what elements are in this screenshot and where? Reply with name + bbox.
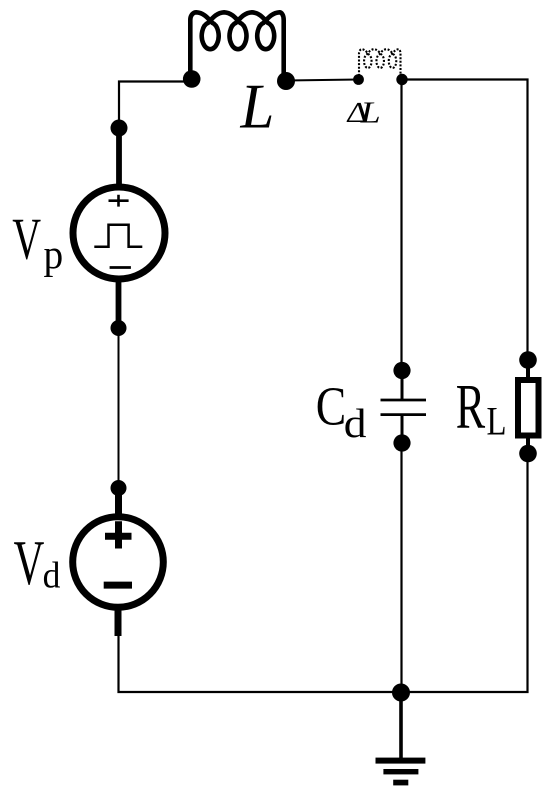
svg-text:V: V [14, 528, 45, 598]
wire lead: Vp circle to bottom node [116, 280, 122, 328]
node: ΔL right terminal [396, 74, 407, 85]
node: Cd bottom [393, 434, 410, 451]
label Cd [316, 375, 367, 446]
wire stub RL bottom [526, 438, 530, 454]
node: RL bottom [519, 445, 537, 463]
wire from Vp to Vd [118, 328, 120, 488]
label ΔL [344, 96, 380, 130]
label RL [456, 371, 507, 443]
node: inductor L right terminal [277, 72, 295, 90]
wire top-left from inductor L to Vp branch [119, 82, 191, 129]
capacitor Cd [381, 371, 427, 444]
label Vp [12, 206, 63, 277]
wire lead: node to Vd circle [115, 488, 122, 517]
svg-text:L: L [360, 96, 381, 130]
wire lead: Vd circle bottom [115, 607, 122, 636]
voltage source Vp [73, 187, 165, 279]
node: ground junction [392, 684, 410, 702]
label L [240, 70, 275, 142]
svg-text:V: V [12, 206, 41, 272]
resistor RL [518, 380, 539, 436]
wire top-right from ΔL to RL branch [402, 80, 528, 361]
wire from L right terminal to ΔL [286, 80, 359, 81]
wire lead: node to Vp circle [116, 128, 122, 186]
wire from ΔL right terminal down to Cd [400, 80, 402, 371]
node: Cd top [393, 362, 410, 379]
label Vd [14, 528, 61, 598]
node: top of Vp [111, 120, 128, 137]
svg-text:L: L [487, 398, 507, 443]
node: ΔL left terminal [353, 74, 364, 85]
node: inductor L left terminal [183, 70, 201, 88]
wire bottom-left from Vd to ground rail [119, 636, 402, 692]
voltage source Vd [73, 517, 164, 608]
node: RL top [519, 351, 537, 369]
ground [376, 693, 426, 786]
wire from Cd down to ground junction [400, 443, 402, 692]
svg-text:C: C [316, 375, 346, 436]
wire from RL down to ground rail [401, 454, 528, 693]
svg-text:d: d [344, 401, 367, 446]
wire stub RL top [526, 360, 530, 378]
svg-text:p: p [44, 231, 64, 277]
svg-text:d: d [43, 555, 61, 596]
inductor L [190, 12, 283, 81]
inductor ΔL (dashed) [359, 49, 401, 79]
svg-text:R: R [456, 371, 486, 442]
node: top of Vd [111, 480, 127, 496]
svg-text:L: L [240, 70, 275, 142]
node: bottom of Vp [111, 320, 127, 336]
